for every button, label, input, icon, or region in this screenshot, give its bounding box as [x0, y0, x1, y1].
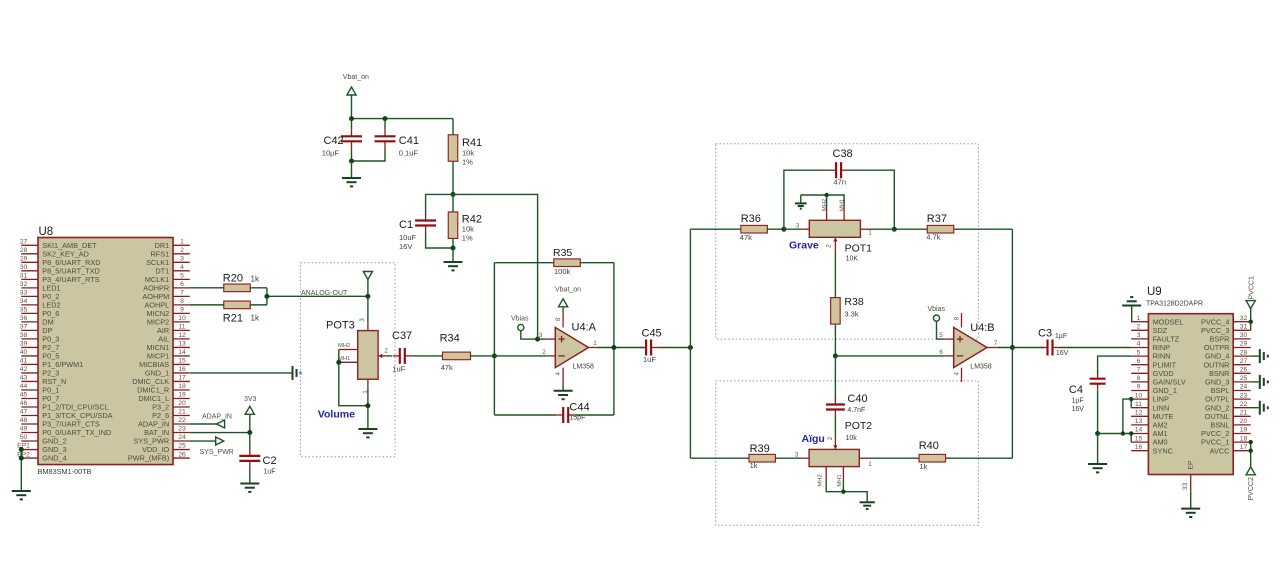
ground pin16 (rotated) — [293, 366, 301, 380]
wire POT3 wiper to C37 — [386, 355, 392, 357]
svg-text:11: 11 — [178, 324, 185, 331]
wire pin3 junction to stub — [538, 338, 547, 340]
power Vbat_on at U4:A — [559, 299, 568, 313]
wire LINP/LINN bracket — [1130, 399, 1132, 408]
svg-text:10k: 10k — [462, 225, 474, 234]
capacitor C1 — [415, 214, 436, 233]
ground U8 EP — [12, 491, 31, 499]
svg-text:33: 33 — [1182, 483, 1189, 491]
ground U9 GND_2 (rotated) — [1260, 401, 1268, 415]
capacitor C45 — [639, 340, 658, 356]
pin Vbias (U4:B) — [933, 315, 944, 339]
svg-text:7: 7 — [1137, 367, 1141, 374]
svg-text:45: 45 — [20, 392, 28, 399]
svg-text:17: 17 — [178, 375, 186, 382]
svg-text:SYS_PWR: SYS_PWR — [200, 449, 234, 456]
svg-text:C42: C42 — [324, 135, 344, 147]
POT3 pin1 stub — [367, 379, 369, 388]
svg-text:POT1: POT1 — [845, 243, 873, 255]
svg-text:48: 48 — [20, 417, 28, 424]
junction EP1 — [19, 447, 24, 452]
svg-text:10uF: 10uF — [399, 233, 417, 242]
svg-text:3V3: 3V3 — [244, 396, 257, 403]
junction C4 gnd node — [1095, 431, 1100, 436]
svg-text:15: 15 — [178, 358, 186, 365]
U4:B pin5 stub — [945, 338, 954, 340]
junction column/gnd row — [1121, 431, 1125, 435]
wire C1 branch top — [426, 194, 453, 215]
svg-text:18: 18 — [1240, 435, 1248, 442]
svg-text:10: 10 — [178, 315, 186, 322]
svg-text:Vbias: Vbias — [928, 306, 946, 313]
POT1 wiper wire to R38 — [834, 252, 836, 298]
svg-text:C40: C40 — [847, 393, 867, 405]
wire to ground (C42) — [351, 161, 353, 178]
resistor R35 — [494, 259, 614, 267]
svg-text:C4: C4 — [1069, 384, 1083, 396]
svg-text:1: 1 — [1137, 315, 1141, 322]
junction MH1 — [336, 360, 341, 365]
svg-text:5: 5 — [939, 332, 943, 339]
svg-text:5: 5 — [1137, 349, 1141, 356]
dashed box Grave section — [716, 144, 979, 339]
wire R20/R21 join — [266, 288, 268, 305]
wire C2 to ground — [249, 468, 251, 483]
svg-text:1k: 1k — [251, 314, 260, 323]
svg-text:13: 13 — [178, 341, 186, 348]
svg-text:49: 49 — [20, 426, 28, 433]
svg-text:1k: 1k — [920, 462, 928, 471]
capacitor C2 — [239, 449, 260, 468]
power symbol PVCC2 — [1246, 442, 1255, 475]
IC U8 BM83SM1-00TB — [17, 238, 190, 465]
wire POT1 pin1 to node — [870, 228, 895, 230]
capacitor C44 — [556, 407, 575, 423]
wire C38 right branch — [848, 170, 895, 229]
capacitor C42 — [341, 129, 362, 148]
wire C40 to POT2 wiper — [834, 417, 836, 438]
junction R34 / feedback node — [492, 353, 497, 358]
POT3 wiper arrow — [378, 354, 386, 358]
wire C44 left — [494, 414, 556, 416]
svg-text:1%: 1% — [462, 158, 473, 167]
U4:B pin6 stub — [945, 355, 954, 357]
svg-text:2: 2 — [1137, 324, 1141, 331]
svg-text:POT3: POT3 — [326, 320, 355, 332]
resistor R39 — [690, 454, 800, 462]
POT3 MH2 stub — [339, 349, 358, 351]
svg-text:SYNC: SYNC — [1153, 446, 1173, 455]
connector arrow ADAP_IN — [217, 420, 225, 428]
svg-text:5: 5 — [180, 273, 184, 280]
wire MH1 down — [842, 480, 844, 492]
svg-text:LM358: LM358 — [970, 364, 992, 371]
ground C2 — [240, 484, 259, 492]
svg-text:C41: C41 — [399, 135, 419, 147]
svg-text:34: 34 — [20, 298, 28, 305]
svg-text:PVCC1: PVCC1 — [1249, 276, 1256, 299]
svg-text:22: 22 — [1240, 401, 1248, 408]
resistor R34 — [412, 352, 495, 360]
svg-text:R39: R39 — [750, 443, 770, 455]
junction BAT_IN node — [247, 430, 252, 435]
svg-text:2: 2 — [180, 247, 184, 254]
svg-text:C44: C44 — [569, 402, 589, 414]
power symbol PVCC1 — [1246, 301, 1255, 331]
svg-text:10k: 10k — [462, 149, 474, 158]
svg-text:10µF: 10µF — [322, 149, 340, 158]
wire POT3 pin1 down — [367, 388, 369, 429]
POT2 pin3 stub — [800, 457, 809, 459]
svg-text:31: 31 — [1240, 324, 1248, 331]
svg-text:36: 36 — [20, 315, 28, 322]
junction U4:A out / feedback — [611, 345, 616, 350]
svg-text:1k: 1k — [750, 461, 758, 470]
svg-text:Volume: Volume — [318, 409, 355, 421]
svg-text:13: 13 — [1135, 418, 1143, 425]
resistor R41 — [448, 119, 458, 195]
op-amp U4:A — [555, 313, 588, 382]
svg-text:PVCC2: PVCC2 — [1248, 477, 1255, 500]
wire C41 top — [384, 119, 386, 130]
svg-text:MH2: MH2 — [338, 343, 350, 349]
ground C42/C41 — [342, 178, 361, 186]
svg-text:39: 39 — [20, 341, 28, 348]
wire MODSEL to ground — [1130, 306, 1133, 322]
wire gnd node down — [1097, 434, 1099, 464]
svg-text:47: 47 — [20, 409, 28, 416]
junction tone mid node — [833, 353, 838, 358]
svg-text:R40: R40 — [919, 440, 939, 452]
svg-text:ADAP_IN: ADAP_IN — [202, 414, 232, 421]
ground U4:A pin4 — [554, 391, 573, 399]
svg-text:R34: R34 — [440, 333, 460, 345]
node divider (R41/R42) — [451, 192, 456, 197]
svg-text:MH1: MH1 — [837, 474, 843, 486]
svg-text:35: 35 — [20, 307, 28, 314]
svg-text:21: 21 — [1240, 410, 1248, 417]
svg-text:23: 23 — [1240, 392, 1248, 399]
svg-text:6: 6 — [180, 281, 184, 288]
svg-text:40: 40 — [20, 349, 28, 356]
ground U9 GND_3 (rotated) — [1260, 375, 1268, 389]
svg-text:43: 43 — [20, 375, 28, 382]
svg-text:25: 25 — [1240, 375, 1248, 382]
svg-text:23: 23 — [178, 426, 186, 433]
svg-text:9: 9 — [1137, 384, 1141, 391]
wire RINN left — [1098, 356, 1132, 374]
junction POT1 MH2 — [824, 193, 828, 197]
junction POT1 pin3 node — [781, 227, 786, 232]
svg-text:8: 8 — [1137, 375, 1141, 382]
svg-text:22: 22 — [178, 417, 186, 424]
svg-text:30: 30 — [20, 264, 28, 271]
ground POT2 MH — [860, 502, 875, 509]
resistor R21 — [190, 301, 267, 309]
svg-text:10K: 10K — [846, 256, 859, 263]
svg-text:U8: U8 — [39, 226, 54, 238]
svg-text:1uF: 1uF — [392, 365, 405, 374]
wire C45 to tone network — [658, 347, 690, 349]
power symbol 3V3 — [245, 406, 254, 432]
ground POT3 — [358, 429, 377, 437]
svg-text:20: 20 — [178, 400, 186, 407]
POT2 MH2 stub — [825, 467, 827, 480]
junction POT3 pin1 / MH loop — [365, 403, 370, 408]
junction AVCC (17) — [1249, 449, 1253, 453]
svg-text:1k: 1k — [251, 275, 260, 284]
svg-text:6: 6 — [1137, 358, 1141, 365]
svg-text:47k: 47k — [740, 233, 752, 242]
potentiometer POT2 body — [809, 449, 859, 466]
svg-text:1: 1 — [593, 340, 597, 347]
potentiometer POT1 body — [809, 220, 860, 237]
svg-text:24: 24 — [1240, 384, 1248, 391]
U4:B pin7 stub — [987, 347, 997, 349]
junction tone input — [688, 345, 693, 350]
potentiometer POT3 body — [358, 331, 378, 380]
svg-text:10k: 10k — [846, 435, 858, 442]
op-amp U4:B — [954, 313, 987, 382]
wire POT1 MH loop — [801, 195, 844, 207]
svg-text:R37: R37 — [927, 213, 947, 225]
ground MODSEL (inverted) — [1122, 297, 1141, 305]
svg-text:100k: 100k — [554, 267, 571, 276]
svg-text:4.7nF: 4.7nF — [847, 407, 865, 414]
wire C38 left branch — [784, 170, 830, 229]
POT1 wiper arrow — [833, 237, 837, 252]
svg-text:44: 44 — [20, 383, 28, 390]
U4:A pin3 stub — [546, 338, 555, 340]
POT3 MH1 stub — [339, 361, 358, 363]
svg-text:3: 3 — [180, 256, 184, 263]
resistor R20 — [190, 284, 267, 292]
wire POT2 MH loop — [826, 480, 867, 502]
connector arrow (analog in, top of POT3) — [363, 272, 372, 297]
svg-text:BM83SM1-00TB: BM83SM1-00TB — [38, 467, 92, 476]
svg-text:1µF: 1µF — [1072, 398, 1084, 405]
svg-text:R41: R41 — [462, 137, 482, 149]
wire EP1-EP2 to ground — [20, 450, 22, 491]
svg-text:20: 20 — [1240, 418, 1248, 425]
wire R42 to ground — [452, 248, 454, 262]
svg-text:10: 10 — [1135, 392, 1143, 399]
POT1 pin1 stub — [860, 228, 869, 230]
wire C1 branch bottom — [426, 233, 453, 249]
svg-text:Grave: Grave — [789, 240, 819, 252]
wire U4:A out — [597, 347, 644, 349]
svg-text:32: 32 — [20, 281, 28, 288]
capacitor C37 — [393, 348, 412, 364]
svg-text:R38: R38 — [844, 296, 863, 308]
svg-text:16V: 16V — [1072, 406, 1085, 413]
junction Vbat rail at C41 — [383, 116, 388, 121]
wire U9 GND_4 — [1251, 355, 1259, 357]
POT1 pin3 stub — [800, 228, 809, 230]
svg-text:15pF: 15pF — [569, 415, 585, 422]
POT2 wiper arrow — [833, 437, 837, 449]
junction ANALOG-OUT — [264, 294, 269, 299]
wire 3V3 node to C2 — [249, 433, 251, 449]
wire R36 to POT1 pin3 — [784, 228, 800, 230]
svg-text:0.1uF: 0.1uF — [399, 149, 419, 158]
svg-text:16V: 16V — [1056, 350, 1069, 357]
junction POT1 pin1 node — [892, 227, 897, 232]
svg-text:31: 31 — [20, 273, 28, 280]
wire divider to U4A pin3 column — [453, 194, 538, 339]
wire gnd node to AM brackets — [1098, 433, 1132, 435]
svg-text:47n: 47n — [834, 178, 847, 187]
svg-text:1µF: 1µF — [1055, 333, 1067, 340]
wire U4:B out — [997, 347, 1044, 349]
pin Vbias (U4:A) — [518, 324, 538, 339]
junction U4:B out node — [1010, 345, 1015, 350]
svg-text:4.7k: 4.7k — [926, 233, 940, 242]
junction Vbat rail at C42 — [349, 116, 354, 121]
svg-text:19: 19 — [178, 392, 186, 399]
svg-text:29: 29 — [20, 256, 28, 263]
junction POT2 MH1 — [841, 490, 845, 494]
resistor R37 — [894, 225, 1012, 233]
svg-text:42: 42 — [20, 366, 28, 373]
wire POT3 pin3 — [367, 296, 369, 322]
wire tone left column — [689, 229, 691, 458]
svg-text:Vbat_on: Vbat_on — [555, 287, 581, 294]
svg-text:3.3k: 3.3k — [844, 310, 858, 319]
junction PVCC_1 (18) — [1249, 440, 1253, 444]
svg-text:18: 18 — [178, 383, 186, 390]
resistor R36 — [690, 225, 784, 233]
svg-text:GND_4: GND_4 — [42, 454, 66, 463]
capacitor C40 — [826, 398, 845, 417]
wire R34 node to pin2 — [494, 355, 546, 357]
POT2 MH1 stub — [842, 467, 844, 480]
svg-text:Vbias: Vbias — [511, 316, 529, 323]
svg-text:C38: C38 — [833, 148, 853, 160]
svg-text:LM358: LM358 — [573, 364, 595, 371]
svg-text:33: 33 — [20, 290, 28, 297]
svg-text:AVCC: AVCC — [1210, 446, 1230, 455]
svg-text:U4:A: U4:A — [572, 322, 597, 334]
junction U4:A pin3 — [535, 337, 540, 342]
svg-text:3: 3 — [1137, 332, 1141, 339]
ground C4 node — [1088, 464, 1107, 472]
svg-text:POT2: POT2 — [845, 420, 873, 432]
svg-text:12: 12 — [1135, 410, 1143, 417]
wire R38 to mid node — [834, 324, 836, 356]
svg-text:1%: 1% — [462, 234, 473, 243]
dashed box Aigu section — [716, 381, 979, 525]
svg-text:11: 11 — [1135, 401, 1142, 408]
svg-text:16V: 16V — [399, 242, 412, 251]
svg-text:U9: U9 — [1147, 286, 1162, 298]
svg-text:24: 24 — [178, 434, 186, 441]
dashed box Volume section — [300, 263, 395, 457]
svg-text:EP: EP — [1188, 460, 1195, 470]
junction AM1 — [1129, 431, 1133, 435]
wire C3 to RINP — [1060, 347, 1132, 349]
junction EP2 — [19, 456, 24, 461]
wire LINP to column — [1123, 399, 1131, 433]
svg-text:1uF: 1uF — [264, 469, 276, 476]
svg-text:27: 27 — [1240, 358, 1248, 365]
svg-text:41: 41 — [20, 358, 28, 365]
capacitor C3 — [1041, 340, 1060, 356]
svg-text:1: 1 — [180, 239, 184, 246]
wire mid node to U4:B pin6 — [835, 355, 944, 357]
resistor R40 — [869, 454, 1013, 462]
wire R37 down to out node — [1011, 229, 1013, 347]
svg-text:17: 17 — [1240, 444, 1248, 451]
svg-text:32: 32 — [1240, 315, 1248, 322]
wire C4 to gnd node — [1097, 391, 1099, 434]
svg-text:21: 21 — [178, 409, 186, 416]
svg-text:MH2: MH2 — [818, 474, 824, 486]
wire pin22 ADAP_IN — [190, 423, 217, 425]
svg-text:U4:B: U4:B — [970, 322, 994, 334]
wire pin24 SYS_PWR — [190, 440, 216, 442]
wire MH2 to loop — [826, 195, 828, 207]
svg-text:C37: C37 — [392, 330, 412, 342]
svg-text:30: 30 — [1240, 332, 1248, 339]
svg-text:37: 37 — [20, 324, 28, 331]
svg-text:28: 28 — [1240, 349, 1248, 356]
svg-text:14: 14 — [178, 349, 186, 356]
svg-text:14: 14 — [1135, 427, 1143, 434]
wire U9 GND_3 — [1251, 381, 1259, 383]
svg-text:29: 29 — [1240, 341, 1248, 348]
svg-text:12: 12 — [178, 332, 186, 339]
wire MH loop to ground — [800, 195, 802, 203]
svg-text:16: 16 — [1135, 444, 1143, 451]
junction PVCC_4 — [1249, 320, 1253, 324]
svg-text:7: 7 — [180, 290, 184, 297]
ground R42 — [444, 262, 463, 270]
wire C42 top — [351, 119, 353, 130]
connector arrow SYS_PWR — [216, 437, 224, 445]
svg-text:6: 6 — [939, 349, 943, 356]
svg-text:19: 19 — [1240, 427, 1248, 434]
svg-text:R35: R35 — [553, 247, 572, 259]
wire R40 up to out node — [1011, 348, 1013, 459]
svg-text:50: 50 — [20, 434, 28, 441]
junction POT3 pin3 node — [365, 294, 370, 299]
svg-text:C1: C1 — [399, 219, 413, 231]
wire C44 right — [575, 414, 614, 416]
wire Vbat_on rail — [352, 118, 454, 120]
svg-text:Vbat_on: Vbat_on — [343, 74, 369, 81]
svg-text:28: 28 — [20, 247, 28, 254]
capacitor C4 — [1090, 372, 1106, 391]
wire feedback left column — [493, 263, 495, 415]
svg-text:R20: R20 — [223, 273, 243, 285]
wire C42 bottom — [351, 148, 353, 161]
svg-text:4: 4 — [180, 264, 184, 271]
POT2 pin1 stub — [859, 457, 868, 459]
junction LINP — [1129, 397, 1133, 401]
svg-text:C3: C3 — [1038, 328, 1052, 340]
capacitor C41 — [375, 129, 396, 148]
wire EP to ground — [1190, 491, 1192, 508]
wire AM1/AM0 bracket — [1130, 434, 1132, 443]
ground U9 EP — [1181, 509, 1200, 517]
svg-text:Aïgu: Aïgu — [802, 433, 825, 445]
POT1 MH2 stub — [826, 207, 828, 220]
svg-text:R21: R21 — [223, 313, 243, 325]
wire pin16 GND_1 — [190, 372, 292, 374]
junction R42 bottom — [451, 246, 456, 251]
svg-text:R36: R36 — [741, 213, 761, 225]
